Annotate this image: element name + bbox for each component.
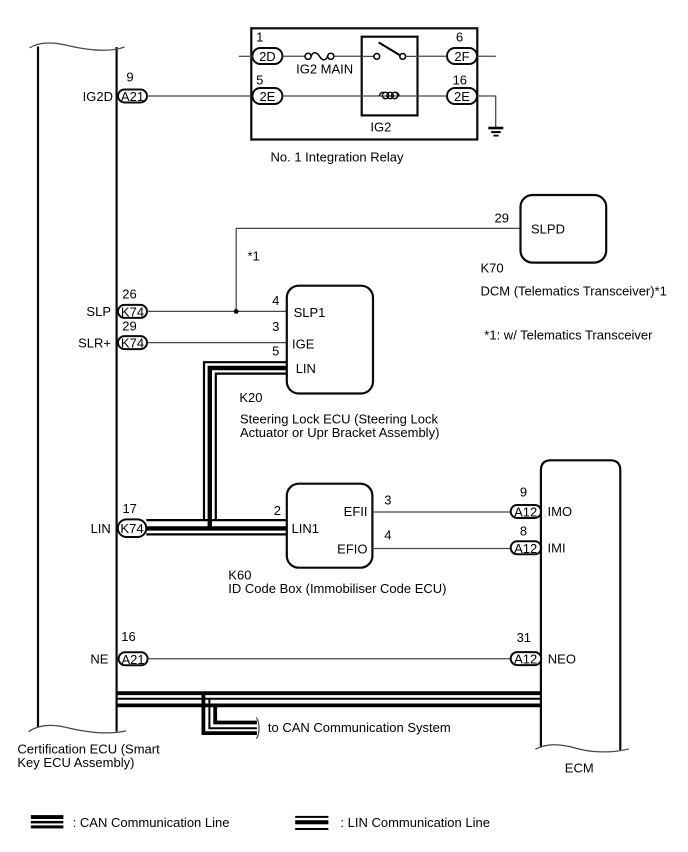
- svg-text:9: 9: [520, 485, 527, 500]
- CAN bus bundle thick bottom line: [117, 704, 541, 708]
- switch contact left: [374, 54, 380, 60]
- wire relay to 2F: [418, 55, 448, 57]
- svg-text:2: 2: [274, 503, 281, 518]
- ECU K70: DCM (Telematics Transceiver): [481, 195, 667, 299]
- svg-text:K20: K20: [239, 390, 262, 405]
- ECU K60: ID Code Box: [228, 484, 446, 596]
- relay coil IG2: [379, 92, 399, 98]
- svg-text:9: 9: [126, 70, 133, 85]
- svg-text:SLP1: SLP1: [294, 305, 326, 320]
- LIN bundle thick middle line: [210, 368, 287, 528]
- svg-text:8: 8: [520, 524, 527, 539]
- connector pin 2F (relay pin 6): [447, 48, 477, 64]
- svg-text:ID Code Box (Immobiliser Code: ID Code Box (Immobiliser Code ECU): [228, 581, 446, 596]
- svg-text:3: 3: [384, 492, 391, 507]
- wire SLP to K20 SLP1: [147, 310, 287, 312]
- svg-text:ECM: ECM: [565, 760, 594, 775]
- svg-text:2E: 2E: [259, 89, 275, 104]
- ECU K20: Steering Lock ECU: [239, 286, 439, 440]
- LIN horizontal bundle thick line: [146, 526, 286, 530]
- svg-text:LIN1: LIN1: [292, 521, 319, 536]
- wire SLR+ to K20 IGE: [147, 342, 287, 344]
- CAN branch cut mark: [256, 718, 259, 739]
- svg-text:3: 3: [272, 319, 279, 334]
- ECU U100: Certification ECU (Smart Key ECU Assembly) bus outline: [17, 43, 160, 770]
- svg-text:IG2: IG2: [370, 120, 391, 135]
- svg-text:*1: w/ Telematics Transceiver: *1: w/ Telematics Transceiver: [484, 328, 653, 343]
- svg-text:16: 16: [453, 73, 467, 88]
- svg-text:2E: 2E: [454, 89, 470, 104]
- LIN horizontal bundle thin top line: [146, 519, 286, 521]
- svg-text:29: 29: [122, 318, 136, 333]
- svg-text:LIN: LIN: [296, 361, 316, 376]
- switch blade: [379, 42, 400, 55]
- wire 2E pin5 through coil to 2E pin16: [282, 95, 447, 97]
- connector pin A12 (IMO pin 9): [511, 505, 542, 520]
- svg-text:A21: A21: [121, 89, 144, 104]
- svg-text:5: 5: [272, 344, 279, 359]
- svg-text:4: 4: [272, 293, 279, 308]
- CAN branch middle thin line: [209, 699, 257, 729]
- legend CAN symbol: [31, 815, 230, 830]
- svg-text:No. 1 Integration Relay: No. 1 Integration Relay: [271, 149, 404, 164]
- wire 2E pin16 to ground: [477, 96, 496, 127]
- wire SLPD from DCM to junction A: [236, 228, 520, 311]
- svg-text:SLP: SLP: [86, 304, 111, 319]
- connector pin 2D (relay pin 1): [252, 48, 282, 64]
- svg-text:EFII: EFII: [344, 504, 368, 519]
- CAN branch outer thick line: [203, 693, 257, 733]
- svg-text:4: 4: [384, 528, 391, 543]
- svg-text:SLPD: SLPD: [531, 221, 565, 236]
- svg-text:K74: K74: [120, 521, 143, 536]
- svg-text:IGE: IGE: [292, 337, 315, 352]
- CAN bus bundle thin middle line: [117, 698, 541, 700]
- connector pin 2E (relay pin 5): [252, 88, 282, 104]
- wire EFII to A12 IMO: [372, 511, 510, 513]
- LIN bundle thin inner line: [216, 374, 287, 519]
- connector pin A21 (NE pin 16): [119, 652, 148, 667]
- junction A dot: [234, 309, 239, 314]
- LIN horizontal bundle thin bottom line: [146, 533, 286, 535]
- svg-text:16: 16: [121, 629, 135, 644]
- svg-text:IG2 MAIN: IG2 MAIN: [296, 61, 353, 76]
- ground: [488, 128, 503, 136]
- svg-text:SLR+: SLR+: [78, 335, 111, 350]
- connector pin A21 (IG2D pin 9): [118, 89, 147, 104]
- svg-text:LIN: LIN: [91, 521, 111, 536]
- svg-text:NE: NE: [90, 652, 108, 667]
- svg-text:A21: A21: [122, 652, 145, 667]
- svg-text:to CAN Communication System: to CAN Communication System: [268, 720, 451, 735]
- svg-text:1: 1: [256, 30, 263, 45]
- fuse IG2 MAIN: [296, 53, 353, 77]
- svg-text:NEO: NEO: [548, 651, 576, 666]
- svg-text:17: 17: [122, 501, 136, 516]
- svg-text:5: 5: [256, 73, 263, 88]
- svg-text:A12: A12: [514, 505, 537, 520]
- svg-text:K74: K74: [121, 336, 144, 351]
- CAN bus bundle thick top line: [117, 691, 541, 695]
- svg-text:: CAN Communication Line: : CAN Communication Line: [73, 815, 230, 830]
- svg-text:K74: K74: [121, 305, 144, 320]
- connector pin K74 (SLR+ pin 29): [118, 336, 147, 351]
- svg-text:IG2D: IG2D: [83, 89, 113, 104]
- ECU: ECM outline: [535, 460, 629, 775]
- wire 2D to fuse: [282, 55, 305, 57]
- svg-text:2D: 2D: [259, 49, 276, 64]
- relay box: No. 1 Integration Relay: [251, 28, 477, 139]
- switch contact right: [400, 54, 406, 60]
- svg-text:K70: K70: [481, 261, 504, 276]
- wire EFIO to A12 IMI: [372, 548, 510, 550]
- connector pin A12 (IMI pin 8): [511, 541, 542, 556]
- svg-text:31: 31: [517, 630, 531, 645]
- relay IG2 inner box: [362, 37, 418, 116]
- svg-text:Actuator or Upr Bracket Assemb: Actuator or Upr Bracket Assembly): [240, 425, 439, 440]
- svg-text:6: 6: [456, 30, 463, 45]
- svg-text:Key ECU Assembly): Key ECU Assembly): [17, 755, 134, 770]
- connector pin K74 (SLP pin 26): [118, 305, 147, 320]
- CAN branch inner thick line: [215, 705, 257, 722]
- svg-text:: LIN Communication Line: : LIN Communication Line: [340, 815, 490, 830]
- svg-text:DCM (Telematics Transceiver)*1: DCM (Telematics Transceiver)*1: [481, 284, 667, 299]
- wire IG2D A21 to relay pin 5: [147, 95, 252, 97]
- svg-text:26: 26: [122, 286, 136, 301]
- svg-text:2F: 2F: [454, 49, 469, 64]
- wire stub left of pin 1: [239, 55, 253, 57]
- svg-text:A12: A12: [514, 652, 537, 667]
- svg-text:*1: *1: [248, 249, 260, 264]
- svg-text:IMO: IMO: [548, 504, 573, 519]
- svg-text:IMI: IMI: [548, 541, 566, 556]
- svg-text:A12: A12: [514, 541, 537, 556]
- legend LIN symbol: [295, 815, 490, 830]
- connector pin A12 (NEO pin 31): [511, 652, 542, 667]
- wire NE to ECM NEO: [148, 658, 511, 660]
- LIN bus bundle from K20 down to LIN wire (thin outer line): [204, 362, 287, 519]
- wire 2F output stub: [477, 55, 496, 57]
- svg-text:EFIO: EFIO: [337, 541, 367, 556]
- svg-text:29: 29: [495, 210, 509, 225]
- connector pin K74 (LIN pin 17): [118, 519, 147, 537]
- wire fuse to relay coil box: [334, 55, 362, 57]
- wire into switch: [362, 55, 374, 57]
- wire switch to box edge: [406, 55, 418, 57]
- connector pin 2E (relay pin 16): [447, 88, 477, 104]
